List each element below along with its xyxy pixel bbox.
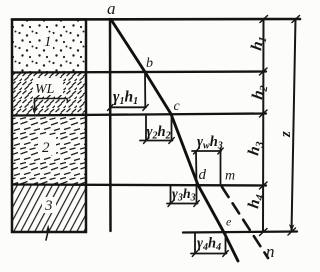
svg-text:2: 2 [42, 140, 50, 156]
z dimension line [292, 19, 296, 232]
tick e-level [260, 229, 268, 236]
tick top [260, 16, 268, 23]
ground surface line [12, 18, 300, 21]
effective stress line a-b-c-d-e [111, 20, 238, 262]
svg-text:WL: WL [35, 82, 55, 97]
gamma4 h4 bracket line [191, 253, 227, 255]
gamma3 h3 bracket verticals [170, 185, 172, 204]
z tick top [292, 16, 300, 23]
layer 3 label background [42, 197, 56, 213]
gamma3 h3 bracket line [167, 203, 198, 205]
svg-text:e: e [226, 215, 232, 229]
boundary line d-level [12, 185, 266, 186]
svg-text:n: n [266, 242, 275, 261]
svg-text:1: 1 [44, 34, 52, 50]
soil column layer 3 fill [12, 185, 86, 232]
boundary line b-level [12, 72, 266, 73]
bottom line e-level [183, 232, 297, 233]
soil column layer 1 fill [12, 20, 86, 72]
svg-text:m: m [225, 169, 235, 184]
svg-text:3: 3 [44, 198, 53, 214]
WL label background [33, 78, 63, 95]
layer 2 label background [38, 135, 56, 155]
z arrow bottom [289, 224, 295, 232]
gamma4 h4 bracket verticals [194, 233, 196, 254]
svg-text:b: b [146, 56, 153, 71]
tick b-level [260, 68, 268, 75]
gamma1 h1 bracket verticals [144, 72, 146, 107]
soil column layer 2 fill [12, 116, 86, 184]
gamma1 h1 bracket line [110, 106, 146, 108]
tick d-level [260, 182, 268, 189]
soil column outline [12, 20, 86, 233]
total stress dashed line m-n [222, 187, 268, 258]
svg-text:d: d [199, 167, 207, 183]
svg-text:a: a [107, 0, 116, 18]
tick c-level [260, 110, 268, 117]
arrow under column (layer 4 mark) [46, 232, 48, 241]
gamma w h3 bracket line [192, 150, 221, 152]
stress axis vertical [109, 19, 112, 231]
h dimension line [262, 19, 265, 232]
WL arrow [35, 99, 68, 102]
layer 1 label background [41, 33, 53, 49]
boundary line c-level (water table) [12, 114, 266, 116]
gamma2 h2 bracket line [140, 140, 173, 142]
svg-text:c: c [174, 99, 181, 114]
gamma w h3 bracket verticals [195, 151, 198, 184]
soil column WL band fill [12, 73, 86, 115]
gamma2 h2 bracket verticals [145, 116, 147, 141]
svg-text:z: z [278, 131, 294, 138]
